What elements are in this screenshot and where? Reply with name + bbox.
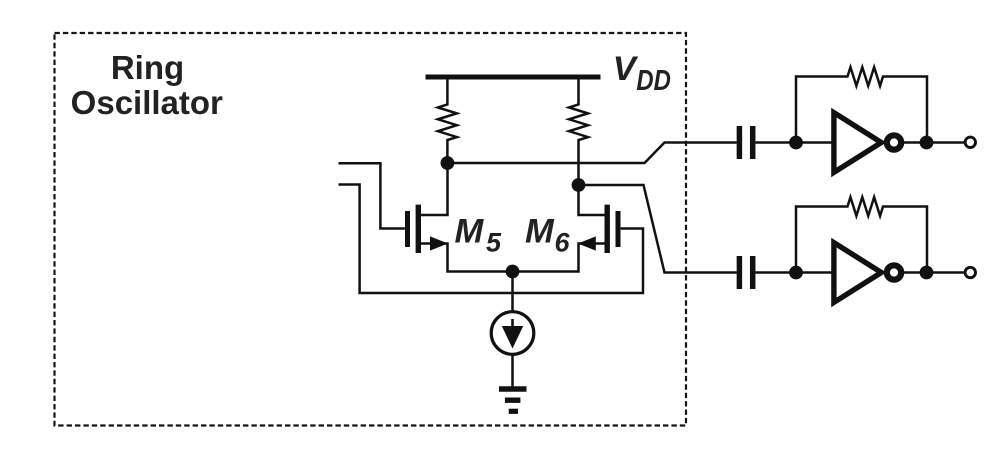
wire: C1 to inverter input [756, 141, 833, 144]
node: U1 output junction [920, 136, 934, 150]
terminal: top output port [965, 137, 975, 147]
node: inverter U1 input junction [789, 136, 803, 150]
inverter U2 [834, 243, 901, 303]
terminal: bottom output port [965, 267, 975, 277]
capacitor C1 [739, 126, 752, 159]
resistor R2 (right load) [569, 80, 588, 186]
wire: tail to current source [511, 272, 514, 312]
svg-text:5: 5 [486, 227, 502, 257]
wire: U1 output [901, 141, 964, 144]
svg-text:M: M [525, 212, 555, 250]
label M6 [525, 212, 571, 257]
transistor M5 [408, 163, 513, 272]
wire: current source to ground [511, 354, 514, 386]
current source I1 [491, 312, 534, 355]
wire: node A to top output (with diagonal jog) [447, 143, 736, 164]
svg-text:Oscillator: Oscillator [71, 84, 223, 121]
svg-text:V: V [613, 50, 639, 88]
label: Ring Oscillator [71, 49, 223, 121]
capacitor C2 [739, 256, 752, 289]
label VDD [613, 50, 671, 97]
VDD power rail [426, 75, 601, 80]
node B (M6 drain junction) [572, 178, 586, 192]
ground symbol [499, 389, 527, 411]
node A (M5 drain junction) [441, 156, 455, 170]
node: common source / tail [506, 265, 520, 279]
inverter U1 [834, 113, 901, 173]
node: U2 output junction [920, 266, 934, 280]
wire: node B to bottom output (with diagonal jog) [579, 185, 737, 273]
svg-text:6: 6 [555, 228, 571, 258]
enclosure box (Ring Oscillator dashed border) [55, 33, 687, 426]
svg-text:M: M [455, 212, 485, 250]
wire: input stub 1 to M5 gate [339, 163, 405, 228]
label M5 [455, 212, 503, 257]
feedback resistor R3 loop (top) [796, 67, 927, 142]
wire: U2 output [901, 271, 964, 274]
transistor M6 [513, 185, 619, 272]
resistor R1 (left load) [438, 80, 457, 164]
svg-text:Ring: Ring [111, 49, 184, 86]
feedback resistor R4 loop (bottom) [796, 197, 927, 272]
node: inverter U2 input junction [789, 266, 803, 280]
wire: input stub 2 to M6 gate (routed under) [339, 185, 644, 294]
svg-text:DD: DD [636, 65, 671, 97]
wire: C2 to inverter input [756, 271, 833, 274]
